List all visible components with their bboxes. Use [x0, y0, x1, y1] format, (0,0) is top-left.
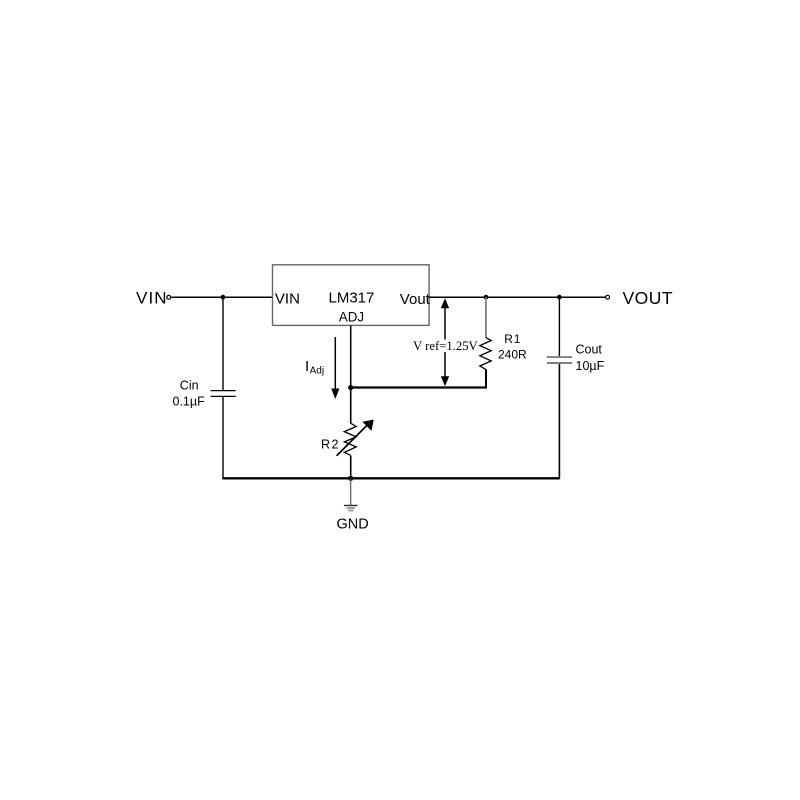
label Cin [180, 379, 199, 393]
svg-text:R2: R2 [321, 438, 340, 452]
ground [344, 478, 358, 510]
wire bottom rail [222, 477, 559, 479]
pin ADJ [339, 310, 364, 325]
terminal VOUT [606, 295, 610, 299]
pin Vout [400, 291, 431, 308]
wire ADJ pin down [350, 326, 352, 388]
svg-text:Adj: Adj [310, 366, 324, 377]
svg-text:I: I [305, 358, 309, 375]
resistor R2 variable [337, 420, 374, 456]
label R2 [321, 438, 340, 452]
svg-text:Vout: Vout [400, 291, 431, 308]
svg-text:0.1µF: 0.1µF [173, 395, 206, 409]
label Cout [576, 343, 603, 357]
label R1 [504, 332, 521, 346]
label LM317 [329, 290, 375, 307]
svg-text:LM317: LM317 [329, 290, 375, 307]
svg-text:VIN: VIN [275, 291, 300, 308]
capacitor Cin [211, 391, 236, 397]
capacitor Cout [547, 357, 572, 363]
svg-text:10µF: 10µF [576, 359, 605, 373]
label IAdj [305, 358, 324, 377]
label Vref=1.25V [411, 339, 479, 353]
wire Cin bottom lead [222, 397, 224, 479]
pin VIN [275, 291, 300, 308]
wire Cout bottom lead [558, 364, 560, 479]
value 10uF [576, 359, 605, 373]
terminal VIN [167, 295, 171, 299]
node junction Cout top [557, 295, 562, 300]
svg-text:Cin: Cin [180, 379, 199, 393]
node junction ADJ [348, 385, 353, 390]
op-amp U1 LM317 body [273, 265, 430, 326]
resistor R1 [480, 297, 491, 387]
svg-text:VOUT: VOUT [623, 288, 674, 308]
node VIN label [136, 289, 168, 308]
svg-text:240R: 240R [498, 348, 527, 362]
node junction Cin top [221, 295, 226, 300]
node VOUT label [623, 288, 674, 308]
wire VIN terminal to LM317 VIN pin [171, 296, 272, 298]
svg-text:ADJ: ADJ [339, 310, 364, 325]
node junction R1 top [484, 295, 489, 300]
svg-text:Cout: Cout [576, 343, 603, 357]
svg-text:VIN: VIN [136, 289, 168, 308]
value 0.1uF [173, 395, 206, 409]
value 240R [498, 348, 527, 362]
wire Vout pin to VOUT terminal [429, 296, 605, 298]
arrow Vref double-headed [441, 298, 449, 386]
wire R2 bottom lead [350, 456, 352, 479]
wire Cin top lead [222, 297, 224, 390]
svg-text:GND: GND [337, 517, 369, 533]
wire Cout top lead [558, 297, 560, 356]
svg-text:V ref=1.25V: V ref=1.25V [413, 339, 479, 353]
wire R2 top lead [350, 388, 352, 424]
arrow IAdj [331, 337, 339, 399]
svg-text:R1: R1 [504, 332, 521, 346]
node junction bottom rail [348, 476, 353, 481]
wire ADJ to R1 bottom [351, 386, 487, 388]
label GND [337, 517, 369, 533]
